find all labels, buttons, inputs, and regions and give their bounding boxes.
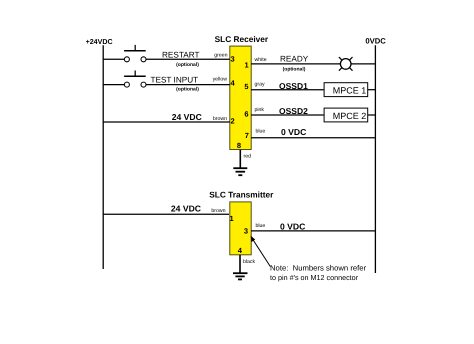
svg-text:0 VDC: 0 VDC	[280, 221, 305, 231]
svg-text:TEST INPUT: TEST INPUT	[151, 75, 199, 84]
svg-text:yellow: yellow	[213, 76, 228, 82]
svg-text:(optional): (optional)	[176, 86, 199, 92]
svg-text:(optional): (optional)	[176, 62, 199, 68]
svg-text:gray: gray	[255, 82, 265, 88]
svg-text:READY: READY	[280, 55, 309, 64]
svg-text:pink: pink	[255, 107, 265, 113]
svg-text:3: 3	[231, 55, 235, 64]
svg-text:+24VDC: +24VDC	[86, 38, 113, 46]
svg-text:24 VDC: 24 VDC	[172, 112, 202, 122]
svg-text:black: black	[243, 259, 256, 265]
svg-text:OSSD2: OSSD2	[279, 106, 308, 116]
svg-text:3: 3	[244, 227, 248, 236]
svg-text:24 VDC: 24 VDC	[171, 204, 201, 214]
svg-text:6: 6	[244, 110, 248, 119]
svg-text:1: 1	[245, 61, 249, 70]
svg-text:0 VDC: 0 VDC	[281, 127, 306, 137]
svg-text:SLC Receiver: SLC Receiver	[215, 34, 269, 44]
svg-text:8: 8	[237, 141, 241, 150]
svg-text:to pin #'s on M12 connector: to pin #'s on M12 connector	[270, 273, 359, 282]
svg-text:OSSD1: OSSD1	[279, 81, 308, 91]
svg-text:5: 5	[244, 82, 248, 91]
svg-text:MPCE 1: MPCE 1	[333, 85, 367, 95]
svg-text:0VDC: 0VDC	[365, 37, 386, 46]
svg-text:1: 1	[230, 214, 234, 223]
svg-text:brown: brown	[211, 208, 225, 214]
svg-text:(optional): (optional)	[283, 66, 306, 72]
svg-text:MPCE 2: MPCE 2	[333, 111, 367, 121]
svg-text:blue: blue	[256, 129, 266, 135]
svg-text:red: red	[244, 154, 252, 160]
svg-text:green: green	[214, 53, 227, 59]
svg-text:SLC Transmitter: SLC Transmitter	[209, 190, 274, 200]
svg-text:brown: brown	[213, 116, 227, 122]
svg-text:blue: blue	[256, 223, 266, 229]
svg-text:RESTART: RESTART	[162, 50, 199, 59]
svg-text:7: 7	[245, 131, 249, 140]
svg-text:white: white	[255, 57, 267, 63]
svg-text:2: 2	[231, 116, 235, 125]
svg-text:Note: Numbers shown refer: Note: Numbers shown refer	[270, 263, 367, 272]
